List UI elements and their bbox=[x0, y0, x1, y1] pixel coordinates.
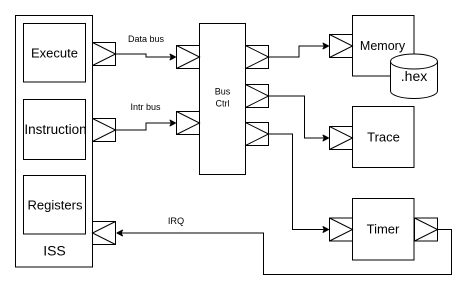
cylinder .hex bbox=[391, 54, 438, 99]
svg-text:Bus: Bus bbox=[215, 86, 231, 96]
block Timer bbox=[353, 199, 415, 261]
block Instruction bbox=[24, 100, 86, 160]
svg-text:Ctrl: Ctrl bbox=[216, 98, 230, 108]
port Timer IRQ out (right-pointing) bbox=[415, 218, 438, 241]
svg-text:Execute: Execute bbox=[31, 45, 78, 60]
svg-text:Data bus: Data bus bbox=[128, 34, 165, 44]
block Memory bbox=[353, 16, 415, 77]
wire Intr bus: Instruction port to BusCtrl left port 2 bbox=[116, 120, 176, 130]
block Execute bbox=[24, 24, 86, 83]
wire BusCtrl right 1 to Memory port bbox=[269, 43, 329, 57]
wire Data bus: Execute port to BusCtrl left port 1 bbox=[116, 54, 176, 60]
port BusCtrl right 3 (right-pointing) bbox=[246, 123, 269, 146]
svg-text:Timer: Timer bbox=[367, 221, 400, 236]
svg-text:Memory: Memory bbox=[360, 39, 406, 53]
port Timer in (right-pointing) bbox=[330, 218, 353, 241]
svg-text:IRQ: IRQ bbox=[168, 216, 184, 226]
block Trace bbox=[353, 107, 415, 168]
port Memory in (right-pointing) bbox=[330, 35, 353, 58]
svg-text:Intr bus: Intr bus bbox=[130, 102, 161, 112]
port BusCtrl right 2 (right-pointing) bbox=[246, 85, 269, 108]
svg-text:ISS: ISS bbox=[43, 242, 66, 258]
svg-text:Instruction: Instruction bbox=[24, 122, 86, 137]
block ISS (outer container) bbox=[16, 16, 93, 268]
block Bus Ctrl bbox=[200, 24, 246, 175]
block Registers bbox=[24, 176, 86, 235]
port Trace in (right-pointing) bbox=[330, 127, 353, 150]
wire BusCtrl right 3 to Timer port bbox=[269, 134, 329, 232]
wire BusCtrl right 2 to Trace port bbox=[269, 96, 329, 141]
port ISS IRQ in (left-pointing) bbox=[93, 222, 116, 245]
svg-text:Registers: Registers bbox=[28, 197, 83, 212]
port BusCtrl right 1 (right-pointing) bbox=[246, 46, 269, 69]
port BusCtrl left 2 (right-pointing) bbox=[177, 112, 200, 135]
port BusCtrl left 1 (right-pointing) bbox=[177, 46, 200, 69]
wire IRQ: Timer out around bottom to ISS IRQ port bbox=[117, 230, 452, 275]
svg-text:.hex: .hex bbox=[401, 68, 427, 84]
port ISS data-bus out (right-pointing) bbox=[93, 43, 116, 66]
port ISS intr-bus out (right-pointing) bbox=[93, 119, 116, 142]
svg-text:Trace: Trace bbox=[367, 130, 400, 145]
